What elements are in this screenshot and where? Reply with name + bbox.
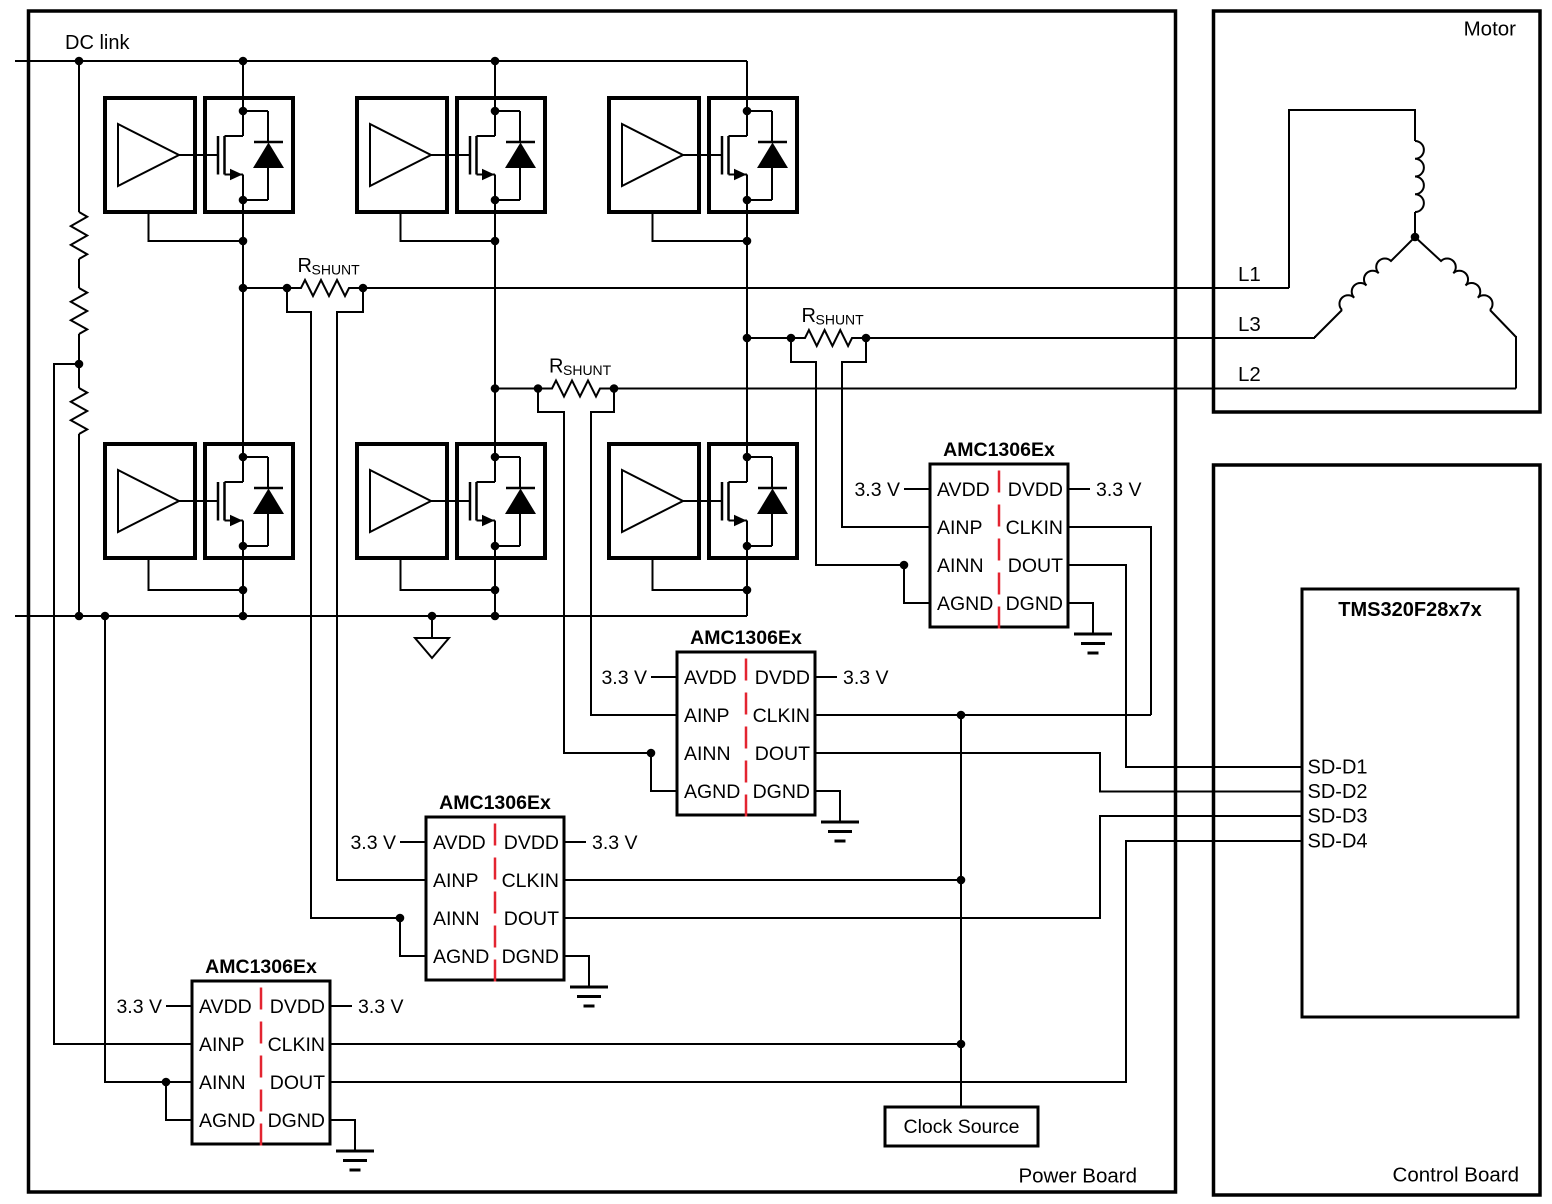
svg-text:DC link: DC link xyxy=(65,32,130,54)
svg-text:Power Board: Power Board xyxy=(1018,1165,1137,1188)
svg-text:Clock Source: Clock Source xyxy=(904,1116,1020,1138)
svg-text:3.3 V: 3.3 V xyxy=(843,667,889,689)
wire AVDD U1 3.3V stub xyxy=(904,488,930,490)
junction DC link / phase leg 1 (L1) xyxy=(239,57,248,66)
wire L2 riser xyxy=(1515,336,1517,389)
wire AVDD U3 3.3V stub xyxy=(400,841,426,843)
svg-text:AVDD: AVDD xyxy=(199,996,252,1018)
wire DC link to divider xyxy=(78,61,80,212)
wire leg3 to shunt 3 xyxy=(747,337,791,339)
junction leg1 / shunt xyxy=(239,284,248,293)
junction DC- rail / phase leg 2 (L2) xyxy=(491,612,500,621)
junction DC- rail / phase leg 1 (L1) xyxy=(239,612,248,621)
svg-text:3.3 V: 3.3 V xyxy=(592,832,638,854)
svg-text:CLKIN: CLKIN xyxy=(502,870,559,892)
wire DVDD U2 3.3V stub xyxy=(815,676,837,678)
transistor Q1 IGBT with antiparallel diode (high-side phase leg 1 (L1)) xyxy=(205,98,293,212)
wire driver return Q6 xyxy=(653,558,748,590)
transistor Q3 IGBT with antiparallel diode (high-side phase leg 2 (L2)) xyxy=(457,98,545,212)
svg-text:SD-D1: SD-D1 xyxy=(1308,757,1368,779)
wire phase leg 3 (L3) bottom xyxy=(746,521,748,617)
transistor Q6 IGBT with antiparallel diode (low-side phase leg 3 (L3)) xyxy=(709,444,797,558)
wire driver return Q1 xyxy=(149,212,244,241)
svg-text:SHUNT: SHUNT xyxy=(312,262,361,278)
wire L1 riser xyxy=(1289,110,1415,288)
wire DVDD U4 3.3V stub xyxy=(330,1005,352,1007)
wire clock trunk xyxy=(960,715,962,1107)
wire DGND U3 to ground xyxy=(564,956,589,987)
svg-text:DVDD: DVDD xyxy=(1008,479,1063,501)
wire divider tap to AINP U4 xyxy=(54,364,192,1044)
inductor motor winding C (right) xyxy=(1415,237,1493,310)
wire driver return Q2 xyxy=(149,558,244,590)
wire L3 corner xyxy=(1314,336,1316,338)
svg-text:R: R xyxy=(802,305,816,327)
node DC- bottom rail xyxy=(15,615,747,617)
svg-text:AGND: AGND xyxy=(433,946,489,968)
wire driver return Q5 xyxy=(653,212,748,241)
wire phase leg 1 (L1) top xyxy=(242,61,244,136)
svg-text:DOUT: DOUT xyxy=(504,908,559,930)
wire divider tap segment xyxy=(78,334,80,388)
svg-text:AINN: AINN xyxy=(199,1072,246,1094)
svg-text:AVDD: AVDD xyxy=(684,667,737,689)
wire DOUT U3 to SD-D3 xyxy=(564,816,1302,918)
svg-text:SD-D2: SD-D2 xyxy=(1308,781,1368,803)
wire CLKIN U4 xyxy=(330,1043,961,1045)
svg-text:L2: L2 xyxy=(1238,363,1261,386)
wire divider to DC- rail xyxy=(78,434,80,616)
gate driver high-side phase leg 2 (L2) xyxy=(357,98,447,212)
svg-text:CLKIN: CLKIN xyxy=(268,1034,325,1056)
wire leg1 to shunt 1 xyxy=(243,287,287,289)
control board outline xyxy=(1214,465,1541,1195)
svg-text:SHUNT: SHUNT xyxy=(816,312,865,328)
resistor R_SHUNT 1 xyxy=(287,280,363,296)
wire DC- rail to AINN U4 xyxy=(105,616,192,1082)
svg-text:DGND: DGND xyxy=(268,1110,325,1132)
ground DGND U2 xyxy=(821,821,859,824)
svg-text:3.3 V: 3.3 V xyxy=(854,479,900,501)
svg-text:SHUNT: SHUNT xyxy=(563,362,612,378)
svg-text:AINP: AINP xyxy=(433,870,479,892)
svg-text:DGND: DGND xyxy=(502,946,559,968)
svg-text:SD-D4: SD-D4 xyxy=(1308,831,1368,853)
svg-text:AINN: AINN xyxy=(684,743,731,765)
svg-text:AGND: AGND xyxy=(684,781,740,803)
svg-text:3.3 V: 3.3 V xyxy=(350,832,396,854)
ground DC- rail xyxy=(431,616,433,638)
node DC+ rail (DC link) xyxy=(15,60,747,62)
gate driver high-side phase leg 1 (L1) xyxy=(105,98,195,212)
svg-text:DVDD: DVDD xyxy=(270,996,325,1018)
wire phase leg 3 (L3) top xyxy=(746,61,748,136)
junction DC link / divider xyxy=(75,57,84,66)
wire CLKIN U2 xyxy=(815,714,1151,716)
junction leg3 / shunt xyxy=(743,334,752,343)
wire shunt 2 sense AINP2 xyxy=(591,389,677,716)
gate driver low-side phase leg 2 (L2) xyxy=(357,444,447,558)
svg-text:AMC1306Ex: AMC1306Ex xyxy=(205,956,317,978)
wire AVDD U4 3.3V stub xyxy=(166,1005,192,1007)
svg-text:3.3 V: 3.3 V xyxy=(1096,479,1142,501)
svg-text:CLKIN: CLKIN xyxy=(753,705,810,727)
ground DGND U3 xyxy=(570,986,608,989)
svg-text:AINN: AINN xyxy=(937,555,984,577)
svg-text:TMS320F28x7x: TMS320F28x7x xyxy=(1338,599,1481,621)
svg-text:AGND: AGND xyxy=(199,1110,255,1132)
svg-text:AMC1306Ex: AMC1306Ex xyxy=(943,439,1055,461)
wire phase leg 1 (L1) middle xyxy=(242,175,244,483)
wire DGND U1 to ground xyxy=(1068,603,1093,634)
svg-text:AINP: AINP xyxy=(684,705,730,727)
svg-text:AINP: AINP xyxy=(199,1034,245,1056)
svg-text:3.3 V: 3.3 V xyxy=(116,996,162,1018)
ground DGND U4 xyxy=(336,1150,374,1153)
motor board outline xyxy=(1214,11,1541,412)
svg-text:DVDD: DVDD xyxy=(755,667,810,689)
wire shunt 1 sense AINP3 xyxy=(337,288,426,880)
node motor star point xyxy=(1411,233,1420,242)
wire AGND U3 tie to AINN xyxy=(400,918,426,956)
wire DGND U4 to ground xyxy=(330,1120,355,1151)
wire shunt 3 to motor L3 xyxy=(866,337,1315,339)
svg-text:Control Board: Control Board xyxy=(1393,1164,1519,1187)
wire shunt 2 to motor L2 xyxy=(614,388,1516,390)
wire driver return Q3 xyxy=(401,212,496,241)
resistor divider R top xyxy=(71,212,87,259)
wire shunt 2 sense AINN2 xyxy=(538,389,651,754)
wire DOUT U1 to SD-D1 xyxy=(1068,565,1302,767)
svg-text:AGND: AGND xyxy=(937,593,993,615)
svg-text:L3: L3 xyxy=(1238,313,1261,336)
wire leg2 to shunt 2 xyxy=(495,388,538,390)
svg-text:R: R xyxy=(298,255,312,277)
wire AVDD U2 3.3V stub xyxy=(651,676,677,678)
gate driver high-side phase leg 3 (L3) xyxy=(609,98,699,212)
svg-text:DGND: DGND xyxy=(753,781,810,803)
wire shunt 1 sense AINN3 xyxy=(287,288,398,918)
wire DOUT U4 to SD-D4 xyxy=(330,841,1302,1082)
wire CLKIN U3 xyxy=(564,879,961,881)
svg-text:DOUT: DOUT xyxy=(270,1072,325,1094)
svg-text:AMC1306Ex: AMC1306Ex xyxy=(439,792,551,814)
svg-text:3.3 V: 3.3 V xyxy=(358,996,404,1018)
wire shunt 3 sense AINN1 xyxy=(791,338,904,565)
svg-text:AINP: AINP xyxy=(937,517,983,539)
wire shunt 3 sense AINP1 xyxy=(842,338,930,527)
wire DGND U2 to ground xyxy=(815,791,840,822)
wire DVDD U3 3.3V stub xyxy=(564,841,586,843)
svg-text:SD-D3: SD-D3 xyxy=(1308,806,1368,828)
resistor R_SHUNT 2 xyxy=(538,381,614,397)
svg-text:DVDD: DVDD xyxy=(504,832,559,854)
inductor motor winding A (top) xyxy=(1415,141,1424,212)
wire phase leg 2 (L2) bottom xyxy=(494,521,496,617)
svg-text:R: R xyxy=(549,356,563,378)
svg-text:AINN: AINN xyxy=(433,908,480,930)
wire DVDD U1 3.3V stub xyxy=(1068,488,1090,490)
resistor divider R bottom xyxy=(71,388,87,434)
junction divider tap xyxy=(75,360,84,369)
junction DC link / phase leg 2 (L2) xyxy=(491,57,500,66)
wire divider xyxy=(78,259,80,288)
inductor motor winding B (left) xyxy=(1339,237,1415,310)
gate driver low-side phase leg 3 (L3) xyxy=(609,444,699,558)
wire AGND U4 tie to AINN xyxy=(166,1082,192,1120)
svg-text:AVDD: AVDD xyxy=(937,479,990,501)
wire AGND U1 tie to AINN xyxy=(904,565,930,603)
svg-text:L1: L1 xyxy=(1238,263,1261,286)
svg-text:DOUT: DOUT xyxy=(755,743,810,765)
power board outline xyxy=(29,11,1176,1192)
junction divider / DC- rail xyxy=(75,612,84,621)
wire CLKIN U1 xyxy=(1068,527,1151,715)
wire phase leg 2 (L2) middle xyxy=(494,175,496,483)
svg-text:AVDD: AVDD xyxy=(433,832,486,854)
wire shunt 1 to motor L1 xyxy=(363,287,1289,289)
transistor Q5 IGBT with antiparallel diode (high-side phase leg 3 (L3)) xyxy=(709,98,797,212)
wire DOUT U2 to SD-D2 xyxy=(815,753,1302,792)
resistor divider R middle xyxy=(71,288,87,334)
clock source box xyxy=(885,1107,1038,1146)
svg-text:DGND: DGND xyxy=(1006,593,1063,615)
junction leg2 / shunt xyxy=(491,384,500,393)
resistor R_SHUNT 3 xyxy=(791,330,866,346)
wire phase leg 3 (L3) middle xyxy=(746,175,748,483)
svg-text:3.3 V: 3.3 V xyxy=(601,667,647,689)
gate driver low-side phase leg 1 (L1) xyxy=(105,444,195,558)
transistor Q2 IGBT with antiparallel diode (low-side phase leg 1 (L1)) xyxy=(205,444,293,558)
svg-text:AMC1306Ex: AMC1306Ex xyxy=(690,627,802,649)
wire driver return Q4 xyxy=(401,558,496,590)
wire AGND U2 tie to AINN xyxy=(651,753,677,791)
svg-text:CLKIN: CLKIN xyxy=(1006,517,1063,539)
wire phase leg 2 (L2) top xyxy=(494,61,496,136)
MCU TMS320F28x7x block xyxy=(1302,589,1518,1017)
wire phase leg 1 (L1) bottom xyxy=(242,521,244,617)
ground DGND U1 xyxy=(1074,633,1112,636)
svg-text:Motor: Motor xyxy=(1464,18,1517,41)
transistor Q4 IGBT with antiparallel diode (low-side phase leg 2 (L2)) xyxy=(457,444,545,558)
svg-text:DOUT: DOUT xyxy=(1008,555,1063,577)
